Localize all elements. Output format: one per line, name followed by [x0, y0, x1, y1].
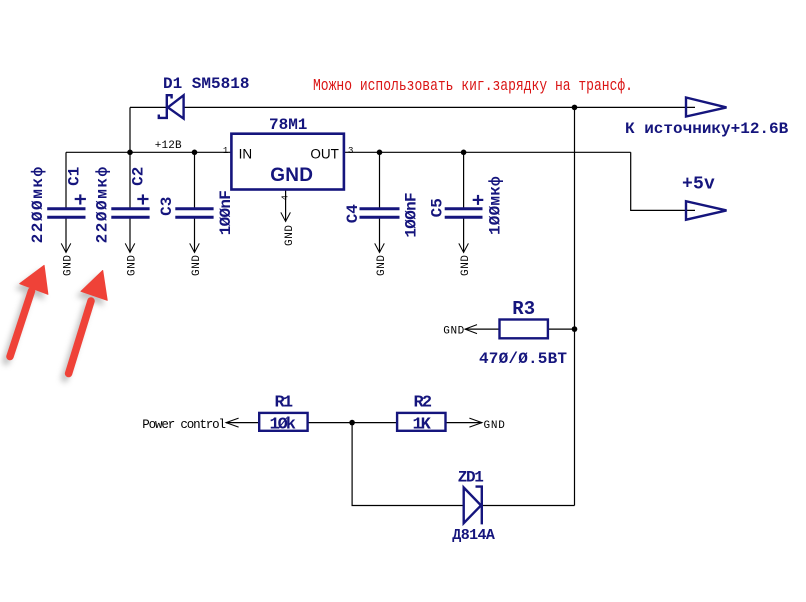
wire power-control to R1 — [226, 422, 259, 424]
capacitor C5 plates — [445, 209, 483, 218]
svg-text:GND: GND — [284, 224, 296, 246]
node junction dot C4 — [377, 150, 383, 156]
svg-text:GND: GND — [270, 165, 313, 186]
svg-text:+5v: +5v — [682, 175, 715, 195]
svg-text:IN: IN — [239, 146, 253, 161]
svg-text:+12В: +12В — [155, 140, 182, 152]
zener ZD1 cathode bar — [476, 487, 482, 525]
plus sign C2 — [137, 194, 148, 204]
red annotation arrow 1 — [10, 265, 48, 356]
output arrow +5v — [686, 201, 727, 220]
resistor R1 body — [259, 413, 307, 431]
svg-text:D1 SM5818: D1 SM5818 — [163, 75, 249, 93]
wire C5 branch lower — [463, 218, 465, 252]
wire output rail — [344, 151, 631, 153]
wire +12V rail — [66, 151, 231, 153]
ground arrowhead left of R3 — [465, 325, 477, 334]
diode D1 schottky bar — [159, 95, 172, 118]
capacitor C1 plates — [47, 209, 85, 218]
wire +5v drop — [631, 152, 695, 210]
svg-text:GND: GND — [191, 254, 203, 276]
svg-text:C1: C1 — [66, 167, 84, 186]
wire vertical from top rail to +12V rail — [129, 107, 131, 152]
wire R3 left — [465, 328, 500, 330]
wire node down to zener — [352, 423, 463, 506]
svg-text:C4: C4 — [344, 204, 362, 224]
svg-text:Д814А: Д814А — [452, 527, 495, 544]
zener ZD1 triangle — [464, 488, 481, 524]
svg-text:К источнику+12.6В: К источнику+12.6В — [625, 120, 789, 138]
svg-text:R1: R1 — [275, 393, 293, 412]
wire R1 to R2 — [308, 422, 398, 424]
svg-text:R2: R2 — [414, 393, 432, 412]
wire top rail left segment — [130, 106, 166, 108]
capacitor C4 plates — [360, 209, 400, 218]
svg-text:3: 3 — [348, 146, 353, 156]
wire C2 branch upper — [129, 152, 131, 208]
wire C4 branch lower — [379, 218, 381, 252]
wire C4 branch upper — [379, 152, 381, 208]
svg-text:1Øk: 1Øk — [270, 415, 296, 434]
svg-text:GND: GND — [127, 254, 139, 276]
svg-text:C5: C5 — [429, 198, 447, 217]
svg-text:R3: R3 — [512, 298, 535, 320]
svg-text:ZD1: ZD1 — [458, 469, 484, 487]
svg-text:GND: GND — [63, 254, 75, 276]
plus sign C5 — [473, 195, 484, 205]
wire R2 to GND arrow — [445, 422, 482, 424]
resistor R2 body — [397, 413, 445, 431]
svg-text:GND: GND — [376, 254, 388, 276]
plus sign C1 — [75, 194, 86, 204]
svg-text:C3: C3 — [158, 197, 176, 216]
svg-text:1ØØnF: 1ØØnF — [217, 191, 235, 236]
ground arrowhead under C4 — [375, 243, 385, 252]
node junction dot top rail — [572, 105, 578, 111]
svg-text:Power control: Power control — [142, 418, 225, 432]
wire C3 branch upper — [194, 152, 196, 208]
svg-text:Можно использовать киг.зарядку: Можно использовать киг.зарядку на трансф… — [313, 77, 633, 96]
svg-text:1ØØмкф: 1ØØмкф — [486, 176, 504, 235]
node junction dot C2 — [127, 150, 133, 156]
wire top rail right segment — [184, 106, 695, 108]
svg-text:78М1: 78М1 — [269, 116, 307, 134]
svg-text:C2: C2 — [130, 167, 148, 186]
wire C2 branch lower — [129, 218, 131, 252]
svg-text:1ØØnF: 1ØØnF — [402, 193, 420, 238]
wire C3 branch lower — [194, 218, 196, 252]
wire C1 branch upper — [65, 152, 67, 208]
node junction dot R1-R2 — [349, 420, 355, 426]
svg-text:22ØØмкф: 22ØØмкф — [93, 165, 111, 243]
node junction dot R3 — [572, 326, 578, 332]
diode D1 triangle — [168, 95, 184, 118]
svg-text:4: 4 — [280, 195, 290, 200]
svg-text:GND: GND — [443, 326, 464, 338]
svg-text:GND: GND — [484, 420, 506, 432]
arrowhead power control — [226, 418, 239, 427]
wire C1 branch lower — [65, 218, 67, 252]
svg-text:1: 1 — [223, 146, 228, 156]
wire R3 right — [548, 328, 575, 330]
ground arrowhead under regulator — [281, 212, 291, 221]
arrowhead R2 to GND — [469, 418, 482, 427]
wire regulator ground pin — [285, 190, 287, 222]
svg-text:OUT: OUT — [310, 146, 339, 161]
svg-text:22ØØмкф: 22ØØмкф — [29, 165, 47, 243]
ground arrowhead under C3 — [190, 243, 200, 252]
regulator U1 box 78M1 — [231, 134, 344, 190]
resistor R3 body — [500, 320, 548, 339]
ground arrowhead under C2 — [125, 243, 135, 252]
wire C5 branch upper — [463, 152, 465, 208]
capacitor C3 plates — [175, 209, 213, 218]
node junction dot C3 — [192, 150, 198, 156]
wire zener cathode to bus — [482, 505, 575, 507]
capacitor C2 plates — [111, 209, 149, 218]
red annotation arrow 2 — [69, 271, 108, 374]
ground arrowhead under C1 — [61, 243, 71, 252]
svg-text:GND: GND — [460, 254, 472, 276]
node junction dot C5 — [461, 150, 467, 156]
output arrow +12.6V — [686, 98, 727, 117]
svg-text:47Ø/Ø.5ВТ: 47Ø/Ø.5ВТ — [479, 350, 567, 368]
ground arrowhead under C5 — [459, 243, 469, 252]
wire main vertical bus — [574, 107, 576, 505]
